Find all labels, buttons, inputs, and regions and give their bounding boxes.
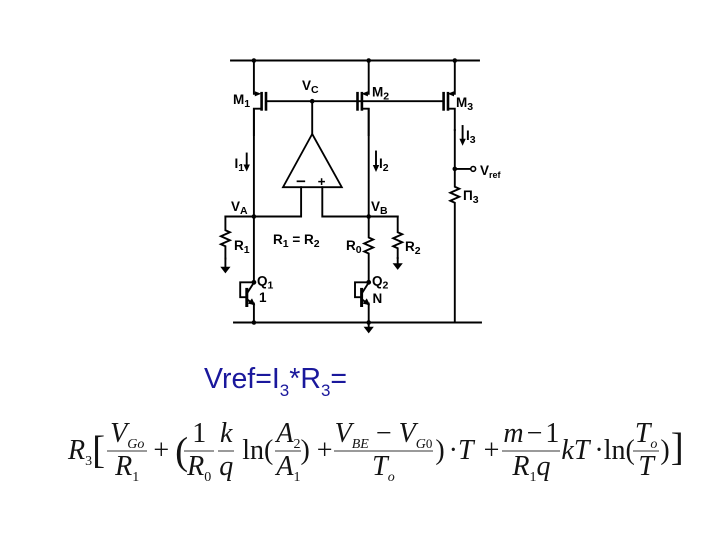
label M3 bbox=[456, 95, 473, 113]
transistor Q2 (diode-connected BJT) bbox=[355, 280, 371, 306]
label VC bbox=[302, 78, 319, 96]
ground below bottom rail bbox=[364, 323, 374, 334]
wire: top supply rail bbox=[231, 60, 479, 62]
wire: common gate line VC bbox=[266, 100, 444, 102]
svg-text:I1: I1 bbox=[235, 156, 245, 174]
label R2 bbox=[405, 239, 421, 257]
node M2 source on rail bbox=[366, 58, 371, 63]
svg-text:VA: VA bbox=[231, 199, 248, 217]
svg-text:R0: R0 bbox=[346, 238, 362, 256]
wire: op-amp plus input bbox=[322, 187, 397, 216]
node Q1-rail junction bbox=[252, 320, 257, 325]
transistor M2 (PMOS) bbox=[358, 61, 369, 136]
label M1 bbox=[233, 92, 250, 110]
svg-text:N: N bbox=[373, 291, 383, 306]
ground below R2 bbox=[393, 258, 403, 270]
svg-text:I2: I2 bbox=[379, 156, 389, 174]
wire: M2 drain down to VB bbox=[368, 109, 370, 217]
fraction VGo over R1 bbox=[107, 421, 147, 480]
label VA bbox=[231, 199, 248, 217]
blue heading Vref=I3*R3= bbox=[204, 364, 347, 395]
label R1 bbox=[234, 238, 250, 256]
label Q2 bbox=[372, 274, 389, 292]
node M1 source on rail bbox=[252, 58, 257, 63]
svg-text:M1: M1 bbox=[233, 92, 250, 110]
fraction m minus 1 over R1 q bbox=[502, 421, 560, 480]
node Q2-rail junction bbox=[366, 320, 371, 325]
fraction VBE minus VG0 over To bbox=[334, 421, 434, 480]
svg-text:Q2: Q2 bbox=[372, 274, 389, 292]
wire: VA down to Q1 bbox=[253, 217, 255, 283]
label I1 bbox=[235, 156, 245, 174]
svg-text:VC: VC bbox=[302, 78, 319, 96]
ln open paren bbox=[242, 435, 273, 467]
wire: Q2 emitter to bottom rail bbox=[368, 304, 370, 323]
fraction 1 over R0 bbox=[184, 421, 214, 480]
node M3 source on rail bbox=[453, 58, 458, 63]
svg-text:R2: R2 bbox=[405, 239, 421, 257]
plus operator bbox=[151, 435, 171, 467]
wire: op-amp output to VC bbox=[311, 101, 313, 134]
close paren dot T plus bbox=[435, 435, 444, 467]
wire: M1 drain down to VA bbox=[253, 109, 255, 217]
svg-text:Vref: Vref bbox=[480, 163, 502, 180]
label I3 bbox=[466, 128, 476, 146]
wire: Q1 emitter to bottom rail bbox=[253, 304, 255, 323]
node VC junction bbox=[310, 99, 315, 104]
label R0 bbox=[346, 238, 362, 256]
svg-text:R1: R1 bbox=[234, 238, 250, 256]
node VA junction bbox=[252, 214, 257, 219]
svg-text:I3: I3 bbox=[466, 128, 476, 146]
resistor R0 bbox=[364, 217, 373, 283]
fraction k over q bbox=[218, 421, 234, 480]
label Vref bbox=[480, 163, 502, 180]
label R1 = R2 bbox=[273, 232, 320, 250]
kT dot ln open paren bbox=[561, 435, 589, 467]
label Q2 ratio N bbox=[373, 291, 383, 306]
label VB bbox=[371, 199, 388, 217]
svg-text:Q1: Q1 bbox=[257, 274, 274, 292]
open paren bbox=[175, 440, 188, 463]
svg-text:Π3: Π3 bbox=[463, 188, 479, 206]
transistor M1 (PMOS) bbox=[254, 61, 266, 136]
svg-text:VB: VB bbox=[371, 199, 388, 217]
wire: M3 drain to Vref node bbox=[454, 130, 456, 169]
label Q1 bbox=[257, 274, 274, 292]
label R3 (Pi-like glyph) bbox=[463, 188, 479, 206]
svg-text:1: 1 bbox=[259, 290, 267, 305]
op-amp U1 bbox=[283, 134, 342, 187]
transistor M3 (PMOS) bbox=[444, 61, 455, 131]
svg-text:M3: M3 bbox=[456, 95, 473, 113]
current arrow I1 bbox=[244, 154, 250, 172]
resistor R1 bbox=[221, 217, 230, 259]
ground below R1 bbox=[220, 259, 230, 274]
label I2 bbox=[379, 156, 389, 174]
formula row bbox=[68, 419, 684, 482]
fraction To over T bbox=[633, 421, 660, 480]
node Vref junction bbox=[453, 167, 458, 172]
node VB junction bbox=[366, 214, 371, 219]
current arrow I2 bbox=[373, 152, 379, 173]
term R3 open bracket bbox=[68, 435, 105, 467]
svg-text:R1 = R2: R1 = R2 bbox=[273, 232, 320, 250]
wire: Vref tap with terminal bbox=[455, 167, 476, 172]
close paren plus bbox=[300, 435, 309, 467]
wire: op-amp minus input bbox=[225, 187, 301, 216]
close paren close bracket bbox=[660, 435, 669, 467]
resistor R3 bbox=[450, 169, 459, 323]
fraction A2 over A1 bbox=[275, 421, 301, 480]
label Q1 ratio 1 bbox=[259, 290, 267, 305]
label M2 bbox=[372, 85, 389, 103]
wire: bottom rail bbox=[234, 322, 481, 324]
svg-text:M2: M2 bbox=[372, 85, 389, 103]
resistor R2 bbox=[393, 217, 402, 259]
labels bbox=[231, 78, 502, 306]
current arrow I3 bbox=[459, 126, 465, 146]
transistor Q1 (diode-connected BJT) bbox=[240, 280, 256, 306]
